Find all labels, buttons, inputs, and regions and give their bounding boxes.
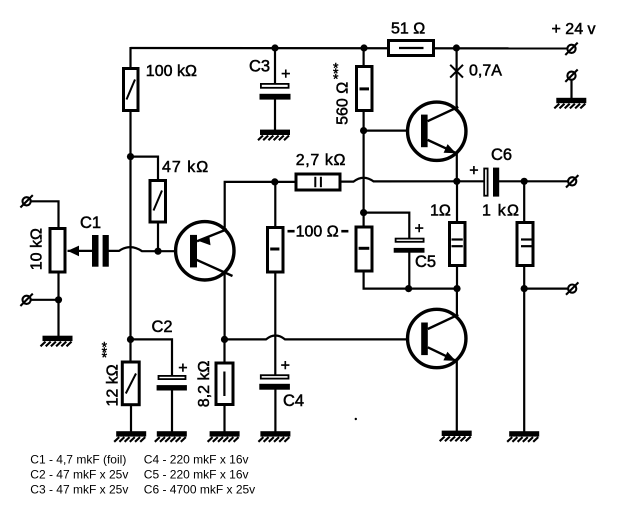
svg-text:1 kΩ: 1 kΩ — [482, 202, 520, 219]
wire Q1 collector down to feedback node — [224, 272, 226, 339]
transistor Q1 — [176, 222, 234, 280]
node Q1 base — [154, 248, 161, 255]
svg-text:C4 - 220 mkF x 16v: C4 - 220 mkF x 16v — [144, 452, 249, 466]
node feedback C2 — [127, 336, 134, 343]
capacitor C6 — [484, 168, 499, 197]
wire 12k bottom to ground — [130, 406, 132, 432]
wire output node to C6 — [457, 180, 484, 182]
resistor R2 47k — [150, 181, 166, 223]
resistor R3 12k — [122, 362, 139, 405]
wire 560R top stub — [363, 47, 365, 67]
capacitor C2 — [157, 376, 187, 391]
svg-text:1Ω: 1Ω — [430, 202, 451, 219]
svg-text:+: + — [281, 358, 290, 375]
transistor Q2 — [408, 102, 466, 160]
wire lower input terminal — [31, 299, 59, 301]
node supply C3 — [271, 44, 278, 51]
ground 8.2k — [208, 431, 240, 442]
wire top supply rail — [131, 47, 568, 50]
node 100k 47k junction — [127, 153, 134, 160]
node supply 560 — [360, 44, 367, 51]
resistor R6 51 — [389, 41, 434, 56]
node C6 1k — [521, 178, 528, 185]
potentiometer 10k — [50, 229, 79, 273]
node output emitter — [453, 178, 460, 185]
capacitor C5 — [394, 239, 425, 253]
wire 2.7k right with hop to output node — [341, 178, 457, 182]
wire Rm2 bottom to rail — [364, 272, 457, 289]
ground 1k — [507, 431, 539, 442]
wire 1k top stub — [523, 181, 525, 222]
node 2.7k Rm1 — [271, 178, 278, 185]
wire 8.2k top stub — [223, 339, 225, 363]
wire C4 to ground — [274, 390, 276, 432]
terminal output — [566, 175, 578, 187]
node Rm2 C5 — [360, 209, 367, 216]
wire Q3 collector stub — [456, 289, 458, 316]
wire ground terminal stub top right — [570, 80, 572, 99]
wire C3 to ground — [274, 99, 276, 130]
node C5 bottom rail — [405, 285, 412, 292]
ground Q3 — [440, 431, 472, 442]
terminal +24v — [565, 43, 577, 55]
node input ground — [55, 296, 62, 303]
ground C4 — [258, 431, 290, 442]
wire Q2 emitter to output node — [456, 153, 458, 181]
wire 47k top stub — [131, 157, 159, 181]
capacitor C3 — [260, 84, 291, 100]
svg-text:C3: C3 — [249, 58, 270, 76]
capacitor C1 — [92, 235, 109, 267]
stray dot artifact — [355, 418, 357, 420]
terminal input bottom — [20, 294, 32, 306]
svg-text:C1: C1 — [80, 214, 101, 232]
svg-text:51 Ω: 51 Ω — [391, 21, 425, 38]
transistor Q3 — [408, 309, 466, 367]
svg-text:2,7 kΩ: 2,7 kΩ — [296, 152, 346, 169]
svg-text:C5: C5 — [415, 253, 436, 271]
svg-text:8,2 kΩ: 8,2 kΩ — [196, 361, 213, 408]
svg-text:*: * — [333, 71, 339, 87]
svg-text:100 Ω: 100 Ω — [296, 223, 339, 240]
wire C5 bottom stub — [408, 253, 410, 289]
wire pot bottom to ground — [57, 273, 59, 336]
wire driver collector up and to 2.7k — [225, 182, 296, 231]
wire C6 to output terminal — [499, 180, 569, 182]
svg-text:C3 - 47 mkF x 25v: C3 - 47 mkF x 25v — [30, 482, 128, 496]
wire 8.2k bottom to ground — [223, 406, 225, 432]
svg-text:C4: C4 — [283, 392, 304, 410]
wire 1k bottom to ground — [523, 267, 525, 432]
wire Q2 base — [364, 130, 422, 132]
svg-text:+ 24 v: + 24 v — [552, 21, 596, 38]
svg-text:+: + — [469, 163, 478, 180]
svg-text:0,7A: 0,7A — [469, 63, 502, 80]
svg-text:+: + — [178, 360, 187, 377]
node feedback 8.2k — [221, 336, 228, 343]
svg-text:C5 - 220 mkF x 16v: C5 - 220 mkF x 16v — [144, 467, 249, 481]
wire C5 top stub — [364, 213, 410, 239]
wire Rm1 top stub — [274, 182, 276, 228]
wire Q3 emitter to ground — [456, 361, 458, 432]
svg-text:100 kΩ: 100 kΩ — [146, 63, 197, 80]
svg-text:12 kΩ: 12 kΩ — [104, 364, 121, 406]
wire C2 to ground — [171, 390, 173, 432]
svg-text:C2: C2 — [152, 318, 173, 336]
node Q2 base — [360, 127, 367, 134]
ground top right — [554, 98, 586, 109]
wire C1 to Q1 base with hop over vertical — [109, 247, 191, 251]
wire 100k top stub — [129, 47, 131, 68]
resistor R1 100k — [124, 69, 139, 111]
svg-text:47 kΩ: 47 kΩ — [162, 159, 209, 176]
wire C3 top stub — [274, 47, 276, 85]
wire left vertical 100k-12k — [129, 111, 131, 362]
wire 1R top stub — [456, 181, 458, 222]
capacitor C4 — [259, 375, 290, 389]
ground 12k — [114, 431, 146, 442]
terminal lower right — [566, 282, 578, 294]
svg-text:560 Ω: 560 Ω — [335, 82, 352, 125]
wire 1k node to lower right terminal — [524, 288, 568, 290]
node supply 51R right — [453, 44, 460, 51]
label stars for 12k — [102, 338, 108, 365]
wire C2 stub from node — [131, 339, 173, 376]
ground C2 — [155, 431, 187, 442]
resistor R7 2.7k — [296, 174, 340, 190]
terminal ground top right — [565, 70, 577, 82]
resistor R5 560 — [357, 67, 373, 111]
node Q3 collector rail — [453, 285, 460, 292]
resistor R9 100 right — [356, 227, 372, 271]
resistor R8 100 left — [268, 228, 284, 273]
svg-text:C1 - 4,7 mkF (foil): C1 - 4,7 mkF (foil) — [30, 452, 126, 466]
wire pot wiper to C1 — [68, 250, 93, 252]
wire Rm1 bottom to C4 — [274, 273, 276, 376]
wire 1R bottom stub — [456, 267, 458, 289]
svg-text:+: + — [415, 221, 424, 238]
svg-text:+: + — [281, 66, 290, 83]
wire 560R bottom to Rm2 — [363, 111, 365, 228]
terminal input top — [20, 195, 32, 207]
wire feedback line to Q3 base with hop — [225, 336, 422, 340]
resistor R4 8.2k — [216, 363, 233, 405]
svg-text:10 kΩ: 10 kΩ — [29, 228, 46, 270]
svg-text:*: * — [102, 349, 108, 365]
svg-text:C2 - 47 mkF x 25v: C2 - 47 mkF x 25v — [30, 467, 128, 481]
label 100 Ohm shared — [288, 223, 349, 240]
svg-text:C6: C6 — [491, 146, 512, 164]
label stars for 560 — [333, 60, 339, 87]
ground pot — [41, 336, 73, 347]
resistor R11 1k — [517, 223, 533, 266]
resistor R10 1R — [450, 223, 466, 266]
wire 47k bottom stub — [157, 223, 159, 252]
svg-text:C6 - 4700 mkF x 25v: C6 - 4700 mkF x 25v — [144, 482, 255, 496]
wire input terminal to pot — [31, 201, 59, 228]
node 1k lower terminal — [521, 285, 528, 292]
ground C3 — [258, 130, 290, 141]
wire Q2 collector to supply — [456, 48, 458, 109]
current cross mark 0.7A — [450, 65, 463, 78]
